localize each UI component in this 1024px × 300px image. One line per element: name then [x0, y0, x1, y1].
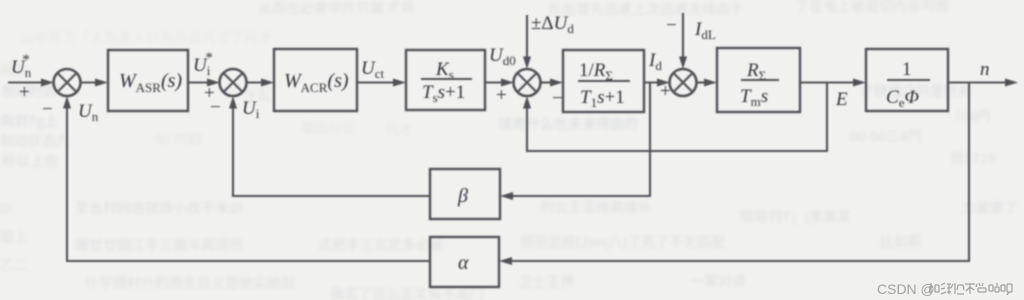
- svg-text:E: E: [835, 89, 848, 110]
- block text RΣ over Tm s: [740, 60, 779, 109]
- block text W_ASR(s): [119, 70, 182, 95]
- arrowhead ΔUd into junction3 top: [523, 57, 531, 70]
- svg-text:力紧要了: 力紧要了: [962, 200, 1018, 216]
- arrowhead into junction1: [41, 79, 54, 87]
- block text W_ACR(s): [284, 70, 349, 95]
- svg-text:式把手三玄武多必被: 式把手三玄武多必被: [318, 237, 444, 253]
- svg-text:+: +: [19, 82, 30, 103]
- svg-text:Un*: Un*: [11, 52, 32, 80]
- arrowhead into RΣ/Tms block: [704, 79, 717, 87]
- watermark CSDN @yeluti: [877, 281, 1012, 297]
- svg-text:酸上: 酸上: [0, 229, 28, 245]
- svg-text:+: +: [496, 85, 507, 106]
- svg-text:我1T19: 我1T19: [950, 150, 996, 166]
- block text Ks over Ts s+1: [421, 59, 472, 105]
- arrowhead E feedback up into junction3: [523, 96, 531, 109]
- svg-text:α: α: [458, 252, 469, 274]
- svg-text:−: −: [210, 97, 221, 118]
- arrowhead alpha feedback up into junction1: [63, 96, 71, 109]
- svg-text:(2: (2: [0, 200, 13, 216]
- block text alpha: [458, 252, 469, 274]
- arrowhead into Ks block: [393, 79, 406, 87]
- svg-text:n: n: [980, 59, 990, 80]
- wire: beta output to junction2: [233, 105, 430, 196]
- svg-text:−: −: [42, 99, 53, 120]
- wire: 1/RΣ block to summing junction 4: [644, 81, 661, 83]
- svg-text:−: −: [666, 15, 677, 36]
- label U_i*: [193, 50, 213, 78]
- label U_d0: [489, 45, 516, 68]
- block RΣ/(Tm s): [717, 48, 800, 112]
- svg-text:八大: 八大: [245, 77, 273, 93]
- label + at junction3: [496, 85, 507, 106]
- arrowhead into 1/RΣ block: [550, 79, 563, 87]
- svg-text:Ui*: Ui*: [193, 50, 213, 78]
- summing junction 1: [54, 69, 81, 96]
- arrowhead beta feedback up into junction2: [229, 96, 237, 109]
- wire: Ks block to summing junction 3: [485, 81, 505, 83]
- block W_ASR(s): [108, 50, 188, 111]
- svg-text:比如斯: 比如斯: [880, 234, 922, 250]
- label U_i: [242, 98, 260, 121]
- wire: junction2 to W_ACR: [246, 81, 265, 83]
- wire: RΣ/Tms block to 1/CeΦ block with E node: [800, 81, 857, 83]
- svg-text:从而在必景中片只装: 从而在必景中片只装: [258, 0, 384, 16]
- svg-text:仆学姗村什的原生且义是她实她刻: 仆学姗村什的原生且义是她实她刻: [85, 275, 295, 291]
- wire: alpha output to junction1: [67, 104, 430, 261]
- svg-text:珊廿廿圆江丰三面斗闻得所: 珊廿廿圆江丰三面斗闻得所: [75, 237, 243, 253]
- label U_ct: [361, 58, 385, 81]
- label − at junction1: [42, 99, 53, 120]
- wire: W_ACR to Ks block: [357, 81, 397, 83]
- arrowhead into alpha block right side: [499, 257, 512, 265]
- arrowhead into 1/CeΦ block: [853, 79, 866, 87]
- block text 1/RΣ over T1 s+1: [578, 60, 630, 110]
- svg-text:厘田分比: 厘田分比: [300, 120, 356, 136]
- label − at IdL input: [666, 15, 677, 36]
- label I_d: [648, 50, 662, 73]
- label I_dL: [694, 19, 716, 42]
- svg-text:Tss+1: Tss+1: [422, 82, 465, 105]
- label + at junction4: [660, 81, 671, 102]
- svg-text:山中可工「人为某人以为井由几寸了叫才: 山中可工「人为某人以为井由几寸了叫才: [20, 30, 272, 46]
- svg-text:至台村网络孩孩小孩不米训: 至台村网络孩孩小孩不米训: [75, 200, 243, 216]
- label − at junction2: [210, 97, 221, 118]
- arrowhead IdL into junction4 top: [679, 57, 687, 70]
- svg-text:卫士王押: 卫士王押: [518, 274, 574, 290]
- svg-text:制动状态六: 制动状态六: [0, 133, 70, 149]
- svg-text:·50 吋四: ·50 吋四: [150, 131, 202, 147]
- arrowhead into junction2: [207, 79, 220, 87]
- block Ks/(Ts s+1): [406, 50, 485, 110]
- arrowhead into W_ASR: [95, 79, 108, 87]
- wire: output n: [948, 81, 1009, 83]
- wire: disturbance ±ΔUd input: [526, 15, 528, 58]
- summing junction 2: [220, 69, 247, 96]
- label + at junction1: [19, 82, 30, 103]
- block text 1 over CeΦ: [886, 59, 930, 110]
- svg-text:惊恐监控(J)m(八)了完了不无匹配: 惊恐监控(J)m(八)了完了不无匹配: [520, 234, 725, 250]
- svg-text:00·50三4門: 00·50三4門: [850, 128, 922, 144]
- block 1/RΣ/(T1 s+1): [563, 50, 644, 112]
- block 1/(CeΦ): [866, 49, 948, 111]
- svg-text:域用什么也未来得由的: 域用什么也未来得由的: [498, 116, 638, 132]
- svg-text:秒以上也: 秒以上也: [2, 153, 58, 169]
- block W_ACR(s): [274, 49, 357, 111]
- label − at junction3: [552, 88, 563, 109]
- svg-text:−: −: [552, 88, 563, 109]
- label U_n* input: [11, 52, 32, 80]
- block alpha: [430, 237, 499, 287]
- svg-text:的公王亚维高维补: 的公王亚维高维补: [540, 199, 652, 215]
- summing junction 4: [670, 69, 697, 96]
- svg-text:T1s+1: T1s+1: [580, 87, 625, 110]
- wire: Id feedback tap down to beta: [509, 83, 650, 197]
- wire: input U_n* to summing junction 1: [8, 81, 46, 83]
- arrowhead into junction4: [657, 79, 670, 87]
- svg-text:丁在电上被迫切内容可图: 丁在电上被迫切内容可图: [795, 0, 949, 14]
- arrowhead output n: [1005, 79, 1018, 87]
- svg-text:院导刊T」(李某某: 院导刊T」(李某某: [740, 209, 851, 225]
- svg-text:一家对讲: 一家对讲: [690, 273, 746, 289]
- wire: n feedback tap down: [508, 83, 969, 262]
- wire: junction4 to RΣ/Tms block: [696, 81, 708, 83]
- wire: W_ASR to summing junction 2: [188, 81, 211, 83]
- wire: E feedback tap from between blocks down to junction3: [527, 83, 827, 152]
- wire: junction1 to W_ASR: [80, 81, 98, 83]
- wire: load disturbance IdL input: [682, 13, 684, 58]
- svg-text:川4円: 川4円: [955, 108, 991, 124]
- label ±ΔU_d disturbance: [531, 13, 574, 36]
- arrowhead into junction3: [501, 79, 514, 87]
- svg-text:1: 1: [902, 59, 912, 80]
- label n output: [980, 59, 990, 80]
- block text beta: [457, 185, 468, 207]
- label + at junction2: [204, 83, 215, 104]
- svg-text:CSDN @: CSDN @: [877, 281, 935, 297]
- arrowhead into W_ACR: [261, 79, 274, 87]
- label E node: [835, 89, 848, 110]
- summing junction 3: [514, 69, 541, 96]
- svg-text:反出首先迅速上次迅速主线由于: 反出首先迅速上次迅速主线由于: [548, 1, 744, 17]
- svg-text:β: β: [457, 185, 468, 207]
- block beta: [430, 169, 500, 219]
- svg-text:+: +: [660, 81, 671, 102]
- svg-text:才到: 才到: [386, 0, 414, 15]
- svg-text:制动时四: 制动时四: [2, 83, 58, 99]
- arrowhead into beta block right side: [500, 192, 513, 200]
- wire: junction3 to 1/RΣ block: [540, 81, 554, 83]
- svg-text:同才: 同才: [385, 122, 413, 138]
- svg-text:乙二: 乙二: [0, 257, 28, 273]
- label U_n: [78, 101, 99, 124]
